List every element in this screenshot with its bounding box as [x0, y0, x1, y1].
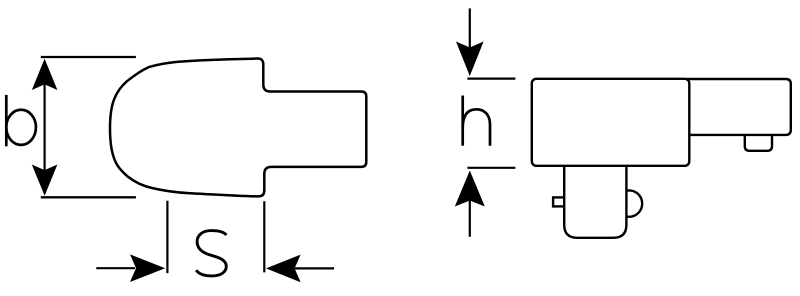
b top extension line: [41, 56, 136, 58]
square drive tang (side view): [564, 155, 626, 238]
b bottom extension line: [41, 196, 136, 198]
label h: [463, 96, 490, 146]
label S: [196, 231, 226, 276]
head outline (left view: insert head with tang): [110, 59, 366, 197]
h up arrow: [455, 171, 485, 207]
h bottom extension line: [467, 167, 515, 169]
b arrow down: [32, 165, 58, 196]
label b: [6, 95, 36, 146]
tang bump (side view): [616, 190, 642, 216]
arm (side view): [688, 79, 791, 135]
S left extension line: [166, 201, 168, 273]
b dimension line: [43, 84, 45, 171]
S left arrow: [96, 267, 135, 269]
b arrow up: [32, 59, 58, 90]
h top extension line: [467, 77, 515, 79]
arm foot: [745, 130, 772, 151]
h down arrow: [469, 8, 471, 48]
main body (side view): [532, 79, 690, 166]
S right arrow: [295, 267, 334, 269]
S right extension line: [263, 201, 265, 272]
tang left tab: [553, 197, 565, 206]
